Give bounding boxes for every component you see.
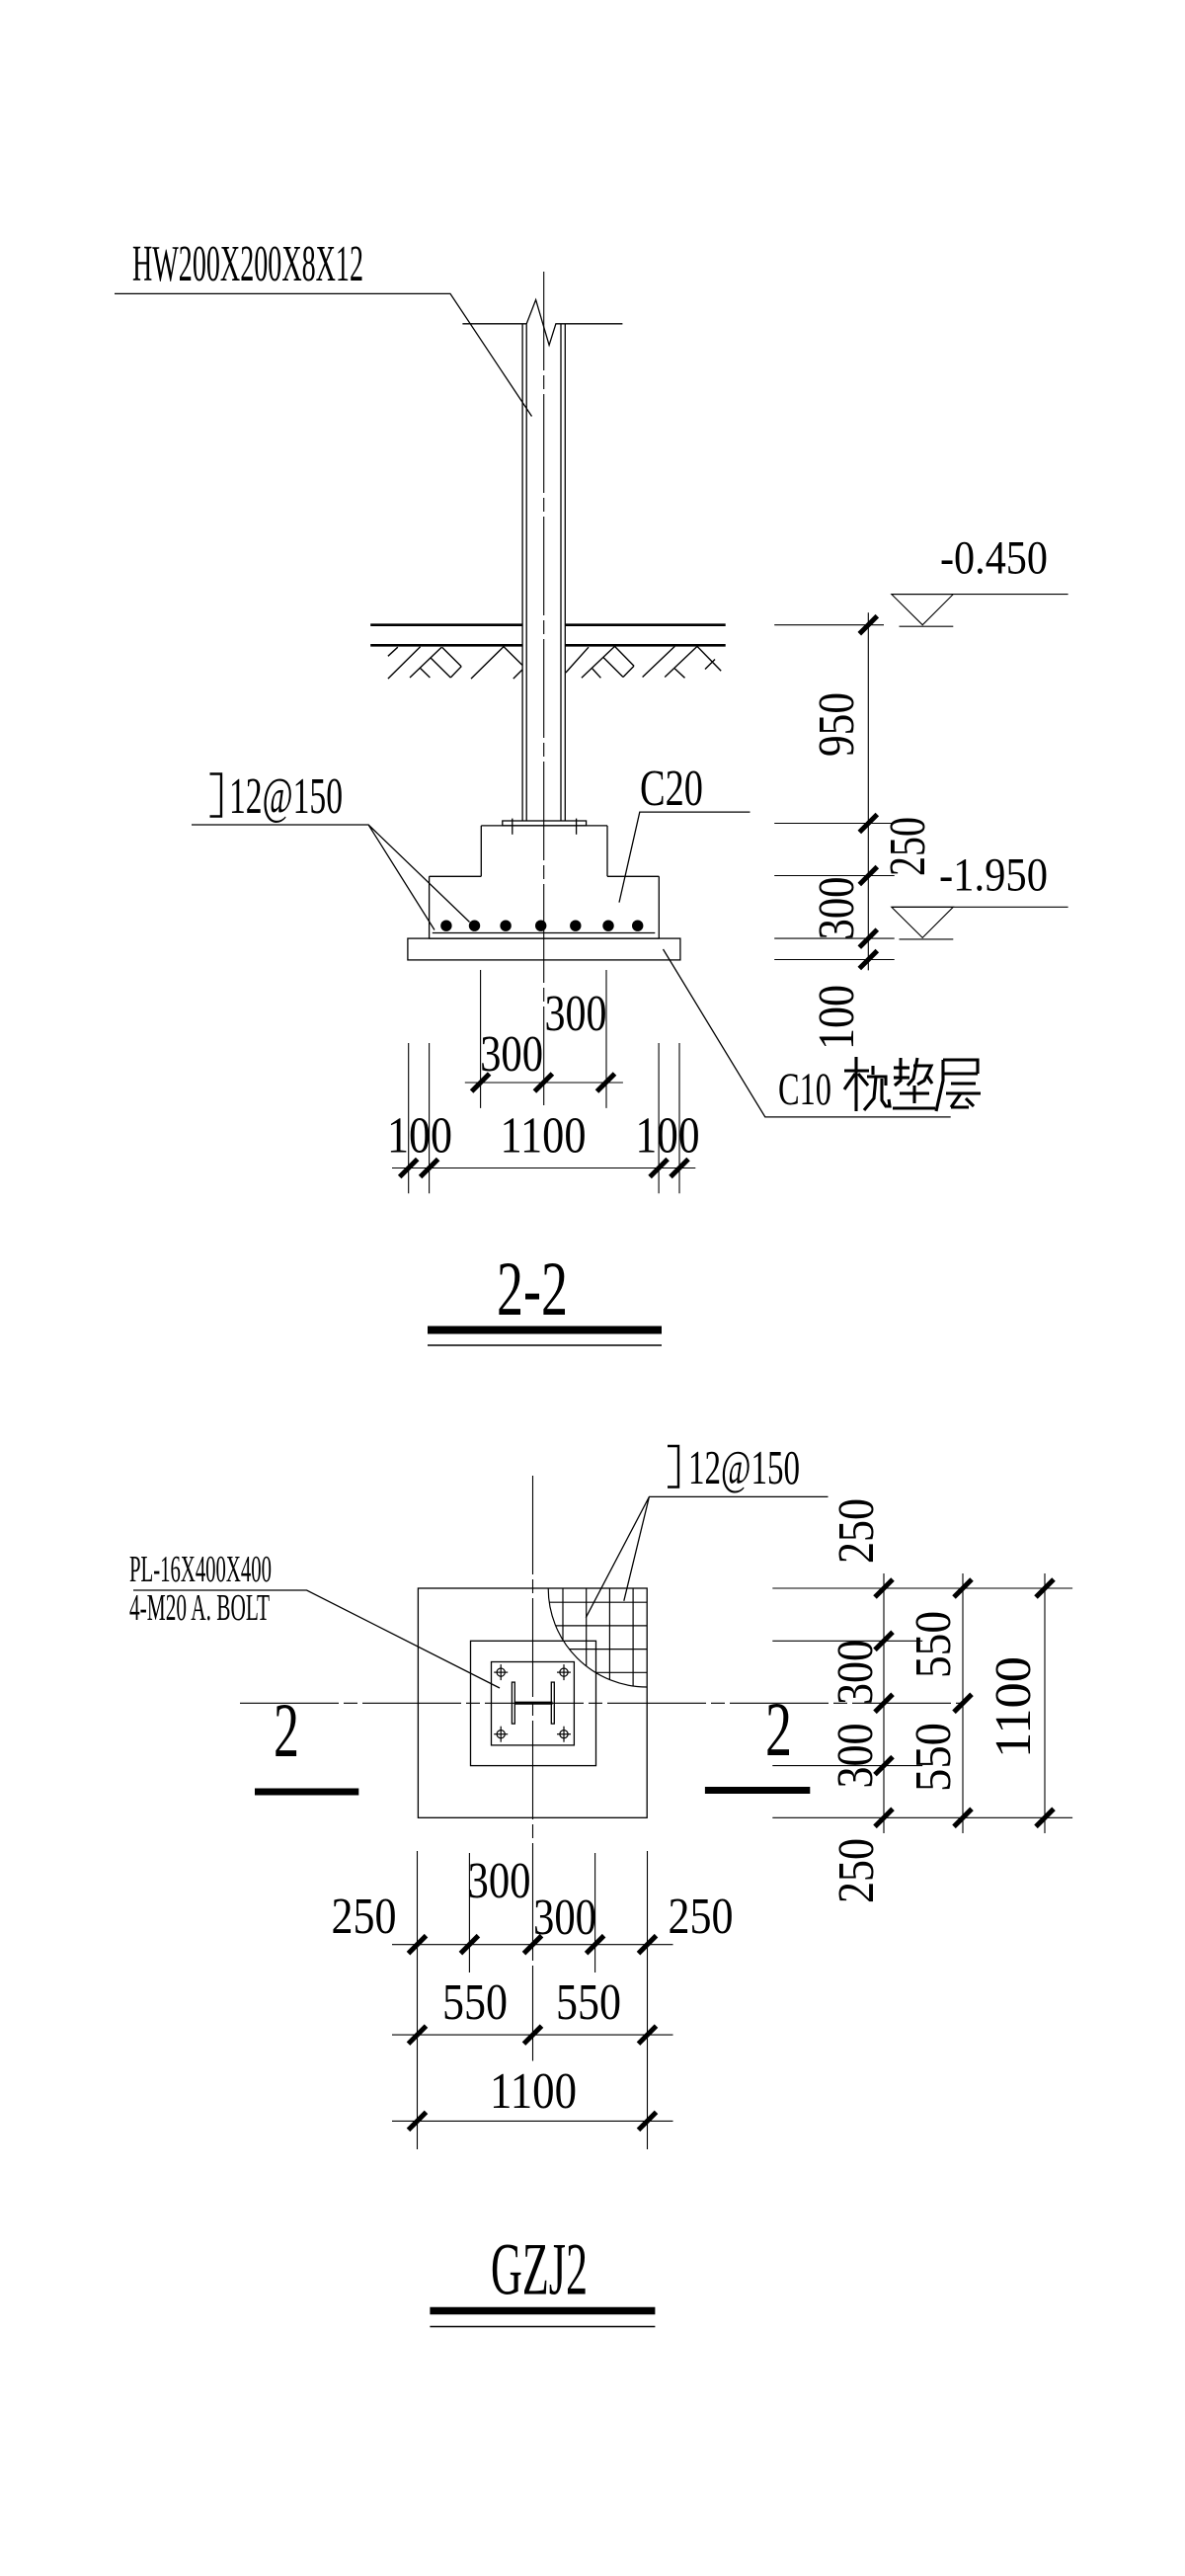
svg-text:2: 2	[274, 1687, 299, 1773]
label ]12@150 (plan) with leader	[586, 1440, 828, 1618]
svg-text:2-2: 2-2	[497, 1246, 568, 1331]
svg-text:250: 250	[332, 1889, 397, 1945]
svg-text:300: 300	[828, 1724, 884, 1789]
base plate PL-16X400X400 (plan)	[492, 1662, 575, 1745]
anchor bolts 4-M20 (plan)	[494, 1664, 571, 1742]
dimension 300/300 (pedestal)	[465, 970, 623, 1108]
svg-text:550: 550	[442, 1974, 508, 2031]
svg-text:300: 300	[533, 1890, 596, 1946]
svg-text:C10: C10	[778, 1064, 831, 1115]
label PL-16X400X400 / 4-M20 A. BOLT with leader	[129, 1549, 500, 1688]
svg-text:250: 250	[829, 1838, 885, 1903]
svg-text:1100: 1100	[490, 2063, 577, 2120]
dimension right side 250/300/300/250, 550/550, 1100	[772, 1498, 1072, 1903]
svg-text:300: 300	[545, 986, 607, 1042]
svg-text:100: 100	[809, 985, 865, 1050]
svg-text:12@150: 12@150	[688, 1440, 800, 1494]
svg-text:-1.950: -1.950	[939, 849, 1048, 902]
H column section (plan): flanges and web	[512, 1682, 554, 1724]
svg-text:250: 250	[669, 1889, 734, 1945]
section cut mark 2 (right)	[705, 1686, 810, 1791]
anchor bolt right (section)	[576, 819, 578, 835]
ground hatch right	[566, 646, 721, 678]
svg-text:12@150: 12@150	[229, 768, 343, 825]
C10 bedding slab	[408, 938, 680, 960]
svg-text:300: 300	[809, 877, 865, 940]
footing outer square (plan)	[418, 1588, 647, 1817]
svg-text:300: 300	[480, 1026, 543, 1083]
elevation marker -0.450	[892, 532, 1068, 627]
wire column-break-symbol	[462, 300, 622, 346]
dimension bottom 250/300/300/250, 550/550, 1100	[332, 1851, 734, 2149]
svg-text:250: 250	[880, 817, 936, 876]
svg-text:PL-16X400X400: PL-16X400X400	[129, 1549, 272, 1590]
dimension 950/250/300/100 (levels)	[774, 612, 936, 1050]
svg-text:GZJ2: GZJ2	[491, 2229, 588, 2311]
dimension 100/1100/100 (bedding)	[387, 1043, 700, 1193]
section cut mark 2 (left)	[255, 1687, 358, 1792]
rebar distribution line	[433, 932, 656, 934]
concrete foundation outline (stepped footing)	[430, 826, 660, 938]
label ]12@150 (section) with leader	[192, 768, 470, 930]
svg-text:-0.450: -0.450	[940, 532, 1048, 585]
base plate (section)	[503, 821, 587, 826]
svg-text:HW200X200X8X12: HW200X200X8X12	[132, 236, 363, 292]
anchor bolt left (section)	[512, 819, 513, 835]
elevation marker -1.950	[892, 849, 1068, 939]
title GZJ2	[430, 2229, 655, 2327]
svg-text:100: 100	[387, 1108, 452, 1165]
svg-text:300: 300	[468, 1853, 531, 1909]
svg-text:C20: C20	[640, 761, 703, 817]
svg-text:550: 550	[906, 1611, 962, 1678]
svg-text:100: 100	[636, 1108, 700, 1165]
svg-text:2: 2	[765, 1686, 792, 1772]
svg-text:300: 300	[828, 1640, 884, 1705]
label C20 with leader	[619, 761, 750, 903]
node plan-centerline-horizontal	[240, 1702, 965, 1704]
footing inner square / pedestal (plan)	[471, 1641, 596, 1765]
rebar dots	[440, 921, 643, 931]
svg-text:250: 250	[829, 1498, 885, 1564]
node section-centerline	[543, 272, 545, 1109]
svg-text:550: 550	[906, 1723, 962, 1792]
svg-text:950: 950	[809, 692, 865, 757]
svg-text:4-M20 A. BOLT: 4-M20 A. BOLT	[129, 1587, 270, 1629]
title 2-2	[428, 1246, 662, 1345]
svg-text:1100: 1100	[501, 1108, 587, 1165]
svg-text:550: 550	[556, 1974, 621, 2031]
ground lines	[370, 625, 726, 646]
node plan-centerline-vertical	[532, 1476, 534, 2061]
label Chinese 枕垫层 (cushion layer)	[844, 1057, 981, 1111]
label C10 bedding with leader	[664, 949, 951, 1117]
label HW200X200X8X12 with leader	[115, 236, 532, 417]
svg-text:1100: 1100	[986, 1656, 1042, 1758]
ground hatch left	[388, 647, 522, 680]
rebar mesh hatch (plan)	[544, 1588, 647, 1691]
steel column HW200X200X8X12 (flanges, section)	[522, 325, 565, 822]
